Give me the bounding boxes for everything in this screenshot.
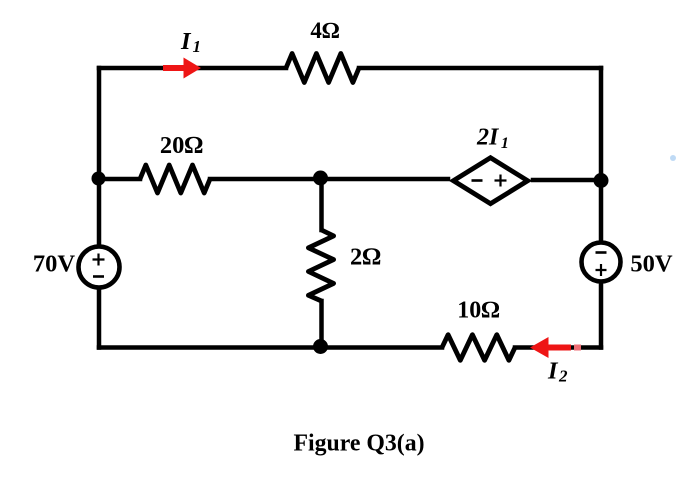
svg-text:20Ω: 20Ω xyxy=(160,132,204,159)
wire right vertical lower xyxy=(599,282,604,348)
stray blue dot artifact xyxy=(670,155,676,161)
svg-text:10Ω: 10Ω xyxy=(457,298,499,324)
minus sign in 70V source xyxy=(93,275,104,278)
node D (bottom middle junction dot) xyxy=(313,339,328,354)
wire top-left horizontal segment xyxy=(99,66,286,71)
wire middle vertical branch upper xyxy=(319,179,324,230)
resistor 2ohm (middle vertical) xyxy=(308,230,333,301)
plus sign in 50V source xyxy=(596,264,607,276)
plus sign in 70V source xyxy=(93,254,105,266)
svg-text:I2: I2 xyxy=(547,358,568,386)
current arrow I2 (red, pointing left) xyxy=(530,337,581,358)
node A (left middle junction dot) xyxy=(92,172,106,186)
wire top-right horizontal segment xyxy=(359,66,601,71)
node B (center middle junction dot) xyxy=(313,171,328,186)
wire left vertical lower xyxy=(97,288,102,348)
svg-text:70V: 70V xyxy=(33,251,76,278)
dependent source U1 (diamond 2I1) xyxy=(453,158,527,204)
wire bottom-right horizontal segment xyxy=(515,345,601,350)
wire middle horizontal right segment xyxy=(533,178,601,183)
wire right vertical upper xyxy=(599,68,604,243)
wire middle horizontal left segment xyxy=(99,177,140,182)
svg-text:2Ω: 2Ω xyxy=(350,244,381,271)
wire middle horizontal mid segment xyxy=(210,177,448,182)
voltage source V1 70V (left circle) xyxy=(79,247,120,288)
svg-text:Figure Q3(a): Figure Q3(a) xyxy=(293,431,424,457)
svg-text:4Ω: 4Ω xyxy=(310,18,340,43)
minus sign inside diamond xyxy=(472,179,483,182)
resistor 20ohm (middle left) xyxy=(140,165,210,193)
current arrow I1 (red, pointing right) xyxy=(163,58,201,79)
resistor 10ohm (bottom) xyxy=(442,335,515,361)
svg-text:I1: I1 xyxy=(180,28,201,56)
minus sign in 50V source xyxy=(596,251,607,254)
wire bottom-left horizontal segment xyxy=(99,345,442,350)
plus sign inside diamond xyxy=(495,175,507,187)
resistor 4ohm (top) xyxy=(286,54,359,83)
svg-text:2I1: 2I1 xyxy=(476,125,509,153)
svg-text:50V: 50V xyxy=(630,251,673,278)
node C (right middle junction dot) xyxy=(594,173,609,188)
wire left vertical upper xyxy=(97,68,102,247)
wire middle vertical branch lower xyxy=(319,301,324,348)
voltage source V2 50V (right circle) xyxy=(582,243,621,282)
